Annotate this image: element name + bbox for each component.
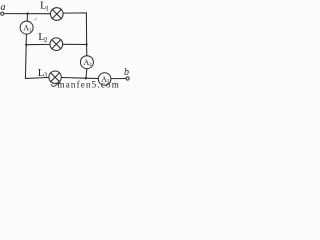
- wire A1 down to J2: [25, 34, 27, 45]
- svg-text:1: 1: [45, 4, 49, 12]
- wire J2 down to bottom corner: [25, 45, 48, 79]
- ammeter A2: [80, 56, 93, 69]
- lamp L2: [50, 38, 63, 51]
- svg-text:a: a: [1, 2, 6, 13]
- lamp L1: [51, 8, 64, 21]
- svg-text:b: b: [124, 67, 129, 78]
- wire a to L1: [4, 13, 50, 15]
- node J3: [85, 43, 87, 45]
- wire J3 down to A2: [86, 45, 88, 56]
- svg-text:1: 1: [29, 28, 32, 33]
- wire J1 down to A1: [26, 14, 28, 22]
- node J2: [25, 44, 27, 46]
- wire J4 to A3: [86, 77, 99, 79]
- ammeter A3: [98, 73, 111, 86]
- terminal a: [1, 12, 4, 15]
- lamp L3: [49, 71, 61, 83]
- wire L2 to J3: [63, 43, 87, 45]
- svg-text:manfen5.com: manfen5.com: [58, 79, 120, 88]
- node J1: [26, 12, 28, 14]
- pen tick mark: [51, 83, 60, 87]
- label L3: [38, 67, 48, 80]
- stray pen mark: [34, 18, 36, 20]
- svg-text:3: 3: [44, 72, 48, 80]
- wire L1 right to corner and down to J3: [63, 13, 86, 45]
- ammeter A1: [20, 21, 33, 34]
- label L1: [40, 0, 49, 12]
- wire J2 to L2: [26, 43, 50, 45]
- node J4: [85, 77, 87, 79]
- wire A2 down to J4: [86, 69, 87, 79]
- terminal b: [126, 77, 129, 80]
- wire L3 to J4: [62, 77, 86, 80]
- wire A3 to b: [111, 78, 126, 80]
- label L2: [38, 31, 48, 44]
- svg-text:2: 2: [44, 36, 48, 44]
